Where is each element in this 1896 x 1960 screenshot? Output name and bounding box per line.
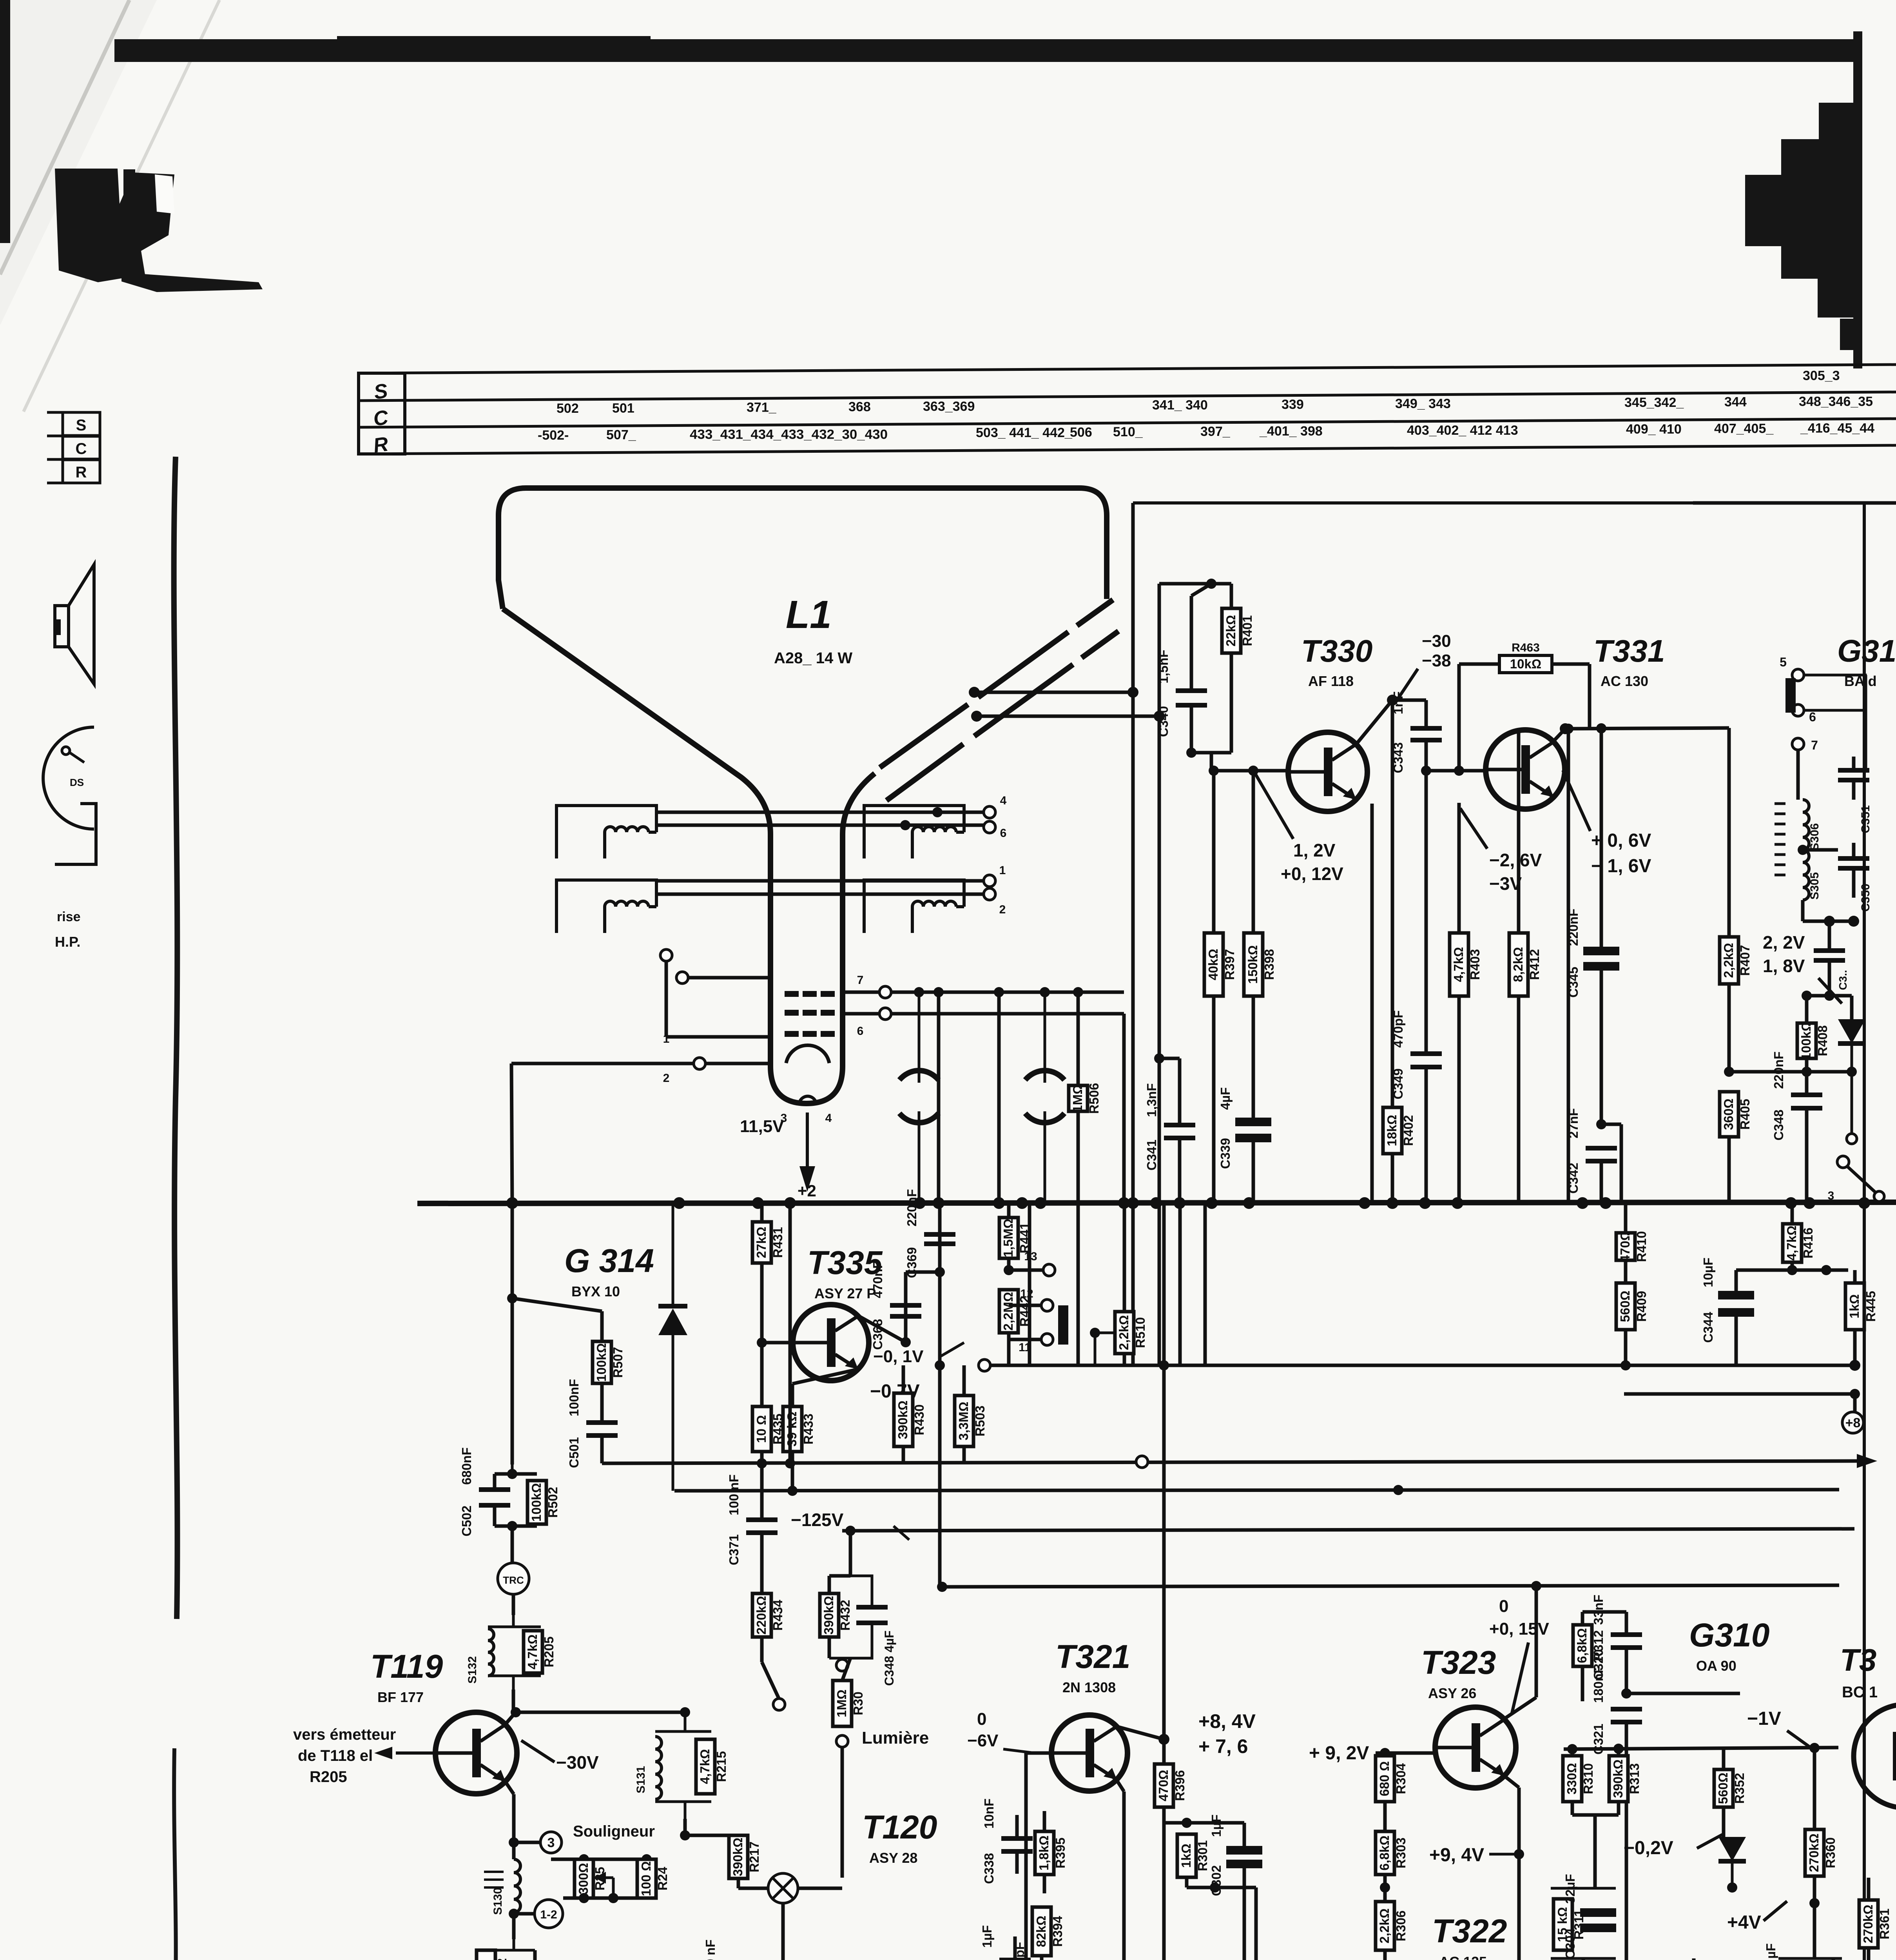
wire TRC to S132 bbox=[512, 1594, 515, 1615]
svg-text:S130: S130 bbox=[491, 1887, 504, 1915]
top component reference table frame bbox=[359, 365, 1896, 457]
node anode tap 2 bbox=[971, 711, 982, 722]
deflection coil upper-left bbox=[556, 806, 656, 858]
label G310 bbox=[1689, 1617, 1770, 1674]
inductor S131 bbox=[634, 1737, 662, 1799]
terminal 6 bbox=[984, 821, 1006, 840]
svg-text:G310: G310 bbox=[1689, 1617, 1770, 1653]
svg-text:+0, 15V: +0, 15V bbox=[1489, 1619, 1550, 1639]
svg-text:−1V: −1V bbox=[1747, 1708, 1781, 1729]
label +8,4V +7,6 bbox=[1198, 1710, 1256, 1757]
svg-text:-502-: -502- bbox=[538, 428, 569, 443]
capacitor C368 bbox=[870, 1261, 921, 1350]
svg-text:7: 7 bbox=[1811, 738, 1818, 752]
label -30 -38 bbox=[1396, 632, 1451, 702]
resistor R398 bbox=[1244, 771, 1276, 1122]
wire diode to R360 bbox=[1732, 1887, 1814, 1888]
svg-text:C339: C339 bbox=[1218, 1138, 1233, 1169]
svg-text:11: 11 bbox=[1019, 1341, 1031, 1354]
node T331 collector bbox=[1560, 723, 1571, 734]
wire R445 top jog bbox=[1848, 1270, 1855, 1283]
label +9,2V bbox=[1309, 1743, 1369, 1764]
node H7 x2398 bbox=[937, 1582, 947, 1592]
wire pin1 line bbox=[666, 1035, 770, 1039]
parallel block S131 R215 outline bbox=[655, 1712, 711, 1819]
svg-text:33nF: 33nF bbox=[1591, 1595, 1606, 1625]
svg-text:6: 6 bbox=[1809, 710, 1816, 724]
node H7 x3920 bbox=[1531, 1581, 1541, 1591]
label L1 bbox=[774, 593, 852, 667]
capacitor C342 bbox=[1566, 1108, 1617, 1203]
svg-text:349_ 343: 349_ 343 bbox=[1395, 396, 1451, 411]
node T335 base bbox=[757, 1338, 767, 1348]
wire box bottom drop bbox=[1582, 1958, 1585, 1960]
resistor R405 bbox=[1720, 1092, 1752, 1203]
parallel block R311 C304 outline bbox=[1551, 1888, 1616, 1958]
svg-text:1MΩ: 1MΩ bbox=[834, 1690, 849, 1717]
svg-text:S132: S132 bbox=[466, 1656, 479, 1684]
node R510 tap bbox=[1090, 1328, 1100, 1338]
svg-text:BYX 10: BYX 10 bbox=[571, 1283, 620, 1299]
wire R463 drop bbox=[1588, 664, 1591, 729]
node diode top bbox=[1824, 991, 1834, 1001]
node -1V a bbox=[1567, 1744, 1577, 1754]
node R360 bot bbox=[1809, 1898, 1820, 1908]
svg-text:22kΩ: 22kΩ bbox=[1224, 615, 1238, 646]
svg-text:R304: R304 bbox=[1394, 1763, 1408, 1794]
capacitor C336 bbox=[1012, 1942, 1063, 1960]
wire R304 chain bbox=[1383, 1802, 1387, 1831]
svg-text:6: 6 bbox=[857, 1025, 864, 1038]
svg-text:TRC: TRC bbox=[503, 1574, 524, 1586]
svg-text:S: S bbox=[76, 417, 87, 434]
label T331 bbox=[1593, 633, 1665, 689]
capacitor C352 bbox=[1814, 951, 1845, 996]
wire collector rail right bbox=[1565, 728, 1729, 729]
wire R432 to R30 bbox=[842, 1658, 850, 1681]
svg-text:vers émetteur: vers émetteur bbox=[293, 1726, 396, 1743]
wire C502 block bottom bbox=[495, 1524, 537, 1528]
node y3240 b bbox=[1821, 1265, 1831, 1275]
svg-text:R432: R432 bbox=[838, 1600, 852, 1631]
terminal 4 bbox=[984, 794, 1007, 818]
svg-text:1µF: 1µF bbox=[1209, 1815, 1224, 1837]
label -0,7V bbox=[831, 1372, 920, 1402]
wire T332 base bbox=[1838, 1748, 1854, 1756]
parallel R432 C348 frame bbox=[829, 1576, 872, 1658]
svg-text:R310: R310 bbox=[1581, 1763, 1595, 1794]
wire T321 emitter drop bbox=[1117, 1780, 1124, 1791]
wire main supply bus bbox=[417, 1202, 1896, 1203]
thermistor TRC bbox=[498, 1563, 529, 1594]
wire T119 emitter col bbox=[512, 1794, 516, 1859]
svg-text:27nF: 27nF bbox=[1566, 1108, 1581, 1138]
svg-text:4,7kΩ: 4,7kΩ bbox=[1451, 947, 1466, 982]
label C351 bbox=[1859, 805, 1872, 833]
node bus junction x2608 bbox=[1016, 1197, 1028, 1209]
svg-text:6,8kΩ: 6,8kΩ bbox=[1377, 1835, 1392, 1871]
capacitor C302 bbox=[1209, 1815, 1262, 1896]
svg-text:403_402_ 412 413: 403_402_ 412 413 bbox=[1407, 423, 1518, 438]
label vers emetteur bbox=[293, 1726, 396, 1786]
svg-text:C343: C343 bbox=[1391, 742, 1405, 773]
svg-text:220nF: 220nF bbox=[1566, 909, 1581, 946]
svg-text:0: 0 bbox=[977, 1710, 986, 1729]
svg-text:T3: T3 bbox=[1840, 1642, 1876, 1677]
parallel block C326 outline bbox=[1778, 1958, 1842, 1960]
node bus junction x4097 bbox=[1600, 1197, 1611, 1209]
node C341 tap on V2 bbox=[1154, 1053, 1164, 1063]
node bus junction x3553 bbox=[1387, 1197, 1398, 1209]
wire collector rail to C343 bbox=[1392, 699, 1426, 702]
svg-text:R394: R394 bbox=[1050, 1916, 1065, 1947]
node S305 mid bbox=[1798, 845, 1808, 855]
resistor R506 bbox=[1069, 992, 1101, 1203]
label T332 bbox=[1840, 1642, 1878, 1701]
terminal pin5 bbox=[1780, 655, 1804, 681]
node y2734 a bbox=[1724, 1067, 1734, 1077]
svg-text:S306: S306 bbox=[1808, 823, 1821, 851]
resistor R441 bbox=[999, 1203, 1032, 1270]
svg-text:1,3nF: 1,3nF bbox=[1144, 1083, 1159, 1117]
svg-text:+8, 4V: +8, 4V bbox=[1198, 1710, 1256, 1732]
wire x2549 vertical bbox=[997, 992, 1001, 1203]
capacitor C343 bbox=[1391, 691, 1442, 773]
wire switch drop bbox=[1878, 1201, 1881, 1203]
resistor R445 bbox=[1845, 1270, 1878, 1365]
wire R463 right lead bbox=[1552, 662, 1590, 666]
svg-text:DS: DS bbox=[70, 777, 84, 788]
svg-text:BF 177: BF 177 bbox=[377, 1689, 424, 1705]
label T335 bbox=[807, 1244, 883, 1301]
svg-text:C345: C345 bbox=[1566, 967, 1581, 998]
svg-text:2,2MΩ: 2,2MΩ bbox=[1001, 1292, 1015, 1331]
wire R507 branch bbox=[512, 1298, 602, 1311]
node bus junction x2868 bbox=[1118, 1197, 1130, 1209]
svg-text:C369: C369 bbox=[904, 1247, 919, 1278]
svg-text:AF 118: AF 118 bbox=[1308, 673, 1354, 689]
label Souligneur bbox=[573, 1823, 655, 1840]
node C349 top tap bbox=[1421, 766, 1431, 776]
resistor R301 bbox=[1177, 1834, 1210, 1887]
wire T335 emitter to R433 bbox=[792, 1370, 854, 1384]
svg-text:R301: R301 bbox=[1195, 1840, 1210, 1871]
wire pin11 bbox=[1009, 1338, 1041, 1341]
wire T330 feed vertical x2958 bbox=[1158, 584, 1161, 716]
svg-text:1nF: 1nF bbox=[1391, 691, 1405, 715]
label -0,2V bbox=[1624, 1835, 1722, 1858]
wire to 3 circle bbox=[514, 1841, 540, 1844]
top table R row numbers bbox=[538, 421, 1874, 443]
wire LUM to R30 column bbox=[798, 1887, 842, 1890]
wire line H5 bbox=[674, 1490, 1839, 1491]
wire x4668 drop bbox=[1828, 921, 1831, 951]
svg-text:C348 4µF: C348 4µF bbox=[882, 1630, 896, 1686]
node C340 join bbox=[1186, 748, 1196, 758]
node y2734 c bbox=[1847, 1067, 1857, 1077]
svg-text:+8: +8 bbox=[1845, 1416, 1861, 1430]
terminal 1 bbox=[984, 864, 1006, 887]
wire T331 emitter drop b bbox=[1457, 996, 1461, 1203]
label T120 bbox=[862, 1809, 937, 1866]
svg-text:C501: C501 bbox=[567, 1437, 581, 1468]
svg-text:2N 1308: 2N 1308 bbox=[1062, 1679, 1116, 1695]
node bus junction x1934 bbox=[752, 1197, 764, 1209]
node T119 coll bbox=[511, 1707, 521, 1717]
node V2 anode tap bbox=[1154, 711, 1165, 722]
capacitor spark gap 1 bbox=[899, 992, 939, 1203]
wire R361 top jog bbox=[1814, 1877, 1869, 1878]
resistor R503 bbox=[955, 1365, 987, 1463]
wire +4V jog bbox=[1732, 1887, 1814, 1903]
wire CRT pin2 line bbox=[511, 1062, 770, 1065]
svg-text:R303: R303 bbox=[1394, 1838, 1408, 1869]
wire T330 collector riser bbox=[1356, 700, 1392, 744]
capacitor C340 bbox=[1156, 596, 1207, 753]
svg-text:100 nF: 100 nF bbox=[703, 1940, 718, 1960]
svg-text:3: 3 bbox=[1828, 1189, 1834, 1202]
label -2,6V -3V bbox=[1460, 808, 1542, 894]
svg-text:371_: 371_ bbox=[747, 400, 777, 415]
wire y4815 rail bbox=[1187, 1886, 1256, 1889]
svg-text:40kΩ: 40kΩ bbox=[1206, 949, 1220, 980]
terminal H2 left open circle bbox=[979, 1359, 990, 1371]
wire S130 bottom bbox=[512, 1913, 516, 1939]
svg-text:R205: R205 bbox=[542, 1637, 556, 1668]
wire x2970 low bbox=[1162, 1823, 1166, 1960]
label T323 bbox=[1421, 1644, 1496, 1701]
wire T321 emitter col bbox=[1122, 1791, 1126, 1960]
label -125V bbox=[791, 1510, 909, 1540]
transistor T331 bbox=[1486, 730, 1565, 809]
speaker symbol bbox=[55, 564, 94, 684]
wire top rail T119 bbox=[516, 1711, 685, 1714]
capacitor C320 bbox=[1591, 1595, 1642, 1693]
resistor R215 bbox=[696, 1739, 729, 1794]
svg-text:T331: T331 bbox=[1593, 633, 1665, 668]
svg-text:A28_ 14 W: A28_ 14 W bbox=[774, 650, 852, 667]
svg-text:1: 1 bbox=[999, 864, 1006, 877]
wire pin12 bbox=[1009, 1304, 1041, 1307]
node C502 top bbox=[507, 1469, 517, 1479]
svg-text:C344: C344 bbox=[1701, 1312, 1715, 1343]
node y4815 bbox=[1210, 1882, 1220, 1893]
resistor R403 bbox=[1450, 933, 1482, 996]
resistor R352a bbox=[1714, 1748, 1747, 1837]
svg-text:368: 368 bbox=[848, 399, 871, 414]
svg-text:0: 0 bbox=[1499, 1597, 1508, 1616]
label 0 -6V bbox=[967, 1710, 1035, 1753]
wire x3876 link bbox=[1517, 1788, 1521, 1960]
wire coil terminal 6 bbox=[656, 824, 984, 827]
svg-text:R416: R416 bbox=[1801, 1228, 1815, 1259]
CRT picture tube L1 envelope bbox=[498, 488, 1107, 1103]
wire C502 column top bbox=[511, 1203, 514, 1465]
capacitor C351 bbox=[1838, 757, 1869, 800]
wire C349 column bbox=[1425, 771, 1428, 1054]
resistor R25 bbox=[575, 1859, 607, 1898]
svg-text:1,8kΩ: 1,8kΩ bbox=[1037, 1835, 1051, 1871]
transistor T323 bbox=[1435, 1707, 1516, 1788]
wire T335 base lead bbox=[762, 1341, 793, 1345]
wire C342 branch bbox=[1601, 1123, 1621, 1126]
svg-text:680nF: 680nF bbox=[459, 1447, 474, 1485]
svg-text:4: 4 bbox=[1000, 794, 1007, 807]
wire T330 emitter drop bbox=[1370, 804, 1374, 1203]
wire T335 collector diag bbox=[858, 1316, 906, 1342]
svg-text:−30V: −30V bbox=[556, 1752, 599, 1773]
node R351 top bbox=[0, 0, 0, 0]
node diode bot bbox=[1727, 1882, 1737, 1893]
label G31 bbox=[1837, 633, 1896, 689]
svg-text:20 µF: 20 µF bbox=[1764, 1943, 1778, 1960]
terminal H4 open circle bbox=[1136, 1456, 1148, 1468]
svg-text:2,2kΩ: 2,2kΩ bbox=[1721, 943, 1736, 978]
svg-text:390kΩ: 390kΩ bbox=[1611, 1759, 1625, 1798]
node pin7 rail x2751 bbox=[1073, 987, 1083, 997]
svg-text:407_405_: 407_405_ bbox=[1714, 421, 1774, 436]
svg-text:470pF: 470pF bbox=[1391, 1010, 1405, 1047]
node bus junction x4038 bbox=[1577, 1197, 1588, 1209]
wire coil block bottom bbox=[1801, 900, 1805, 921]
svg-text:R433: R433 bbox=[801, 1414, 816, 1445]
svg-text:−2, 6V: −2, 6V bbox=[1489, 850, 1542, 870]
svg-text:ASY 28: ASY 28 bbox=[869, 1850, 917, 1866]
svg-text:_401_ 398: _401_ 398 bbox=[1259, 424, 1323, 439]
label T119 bbox=[370, 1648, 443, 1705]
label 0 +0,15V bbox=[1489, 1597, 1550, 1713]
resistor R507 bbox=[593, 1311, 625, 1423]
parallel block S132 R205 outline bbox=[488, 1615, 541, 1690]
svg-text:AC 130: AC 130 bbox=[1601, 673, 1648, 689]
node H2 x2398b bbox=[935, 1360, 945, 1370]
wire line H7 bbox=[942, 1585, 1839, 1587]
resistor R217 bbox=[729, 1835, 761, 1888]
resistor R302 bbox=[1247, 1887, 1279, 1960]
svg-text:T330: T330 bbox=[1301, 633, 1372, 668]
svg-text:R408: R408 bbox=[1815, 1025, 1830, 1056]
resistor R430 bbox=[894, 1365, 926, 1463]
label T321 bbox=[1055, 1638, 1130, 1695]
node R25 top bbox=[579, 1854, 589, 1864]
svg-text:C350: C350 bbox=[1859, 884, 1872, 912]
resistor R407 bbox=[1720, 728, 1752, 1072]
svg-text:G31: G31 bbox=[1837, 633, 1896, 668]
svg-text:R: R bbox=[76, 464, 87, 481]
wire T321 base lead bbox=[1026, 1751, 1051, 1755]
svg-text:R410: R410 bbox=[1634, 1231, 1649, 1262]
svg-text:348_346_35: 348_346_35 bbox=[1799, 394, 1873, 409]
svg-text:339: 339 bbox=[1282, 397, 1304, 412]
terminal 3 bbox=[540, 1832, 562, 1853]
terminal pin11 bbox=[1019, 1334, 1053, 1354]
node bus junction x2655 bbox=[1035, 1197, 1046, 1209]
node pin7 rail x2666 bbox=[1040, 987, 1050, 997]
node R301 top bbox=[1182, 1818, 1192, 1828]
resistor R431 bbox=[752, 1203, 785, 1343]
resistor R205 bbox=[524, 1631, 556, 1673]
arrowhead H4 right bbox=[1857, 1454, 1877, 1468]
wire S131 bottom to R217 bbox=[683, 1819, 687, 1835]
node base T330 b bbox=[1248, 766, 1258, 776]
wire C341 top corner bbox=[1159, 1057, 1180, 1060]
wire R463 left lead bbox=[1459, 662, 1499, 666]
svg-text:560Ω: 560Ω bbox=[1618, 1290, 1632, 1322]
wire diode top feed bbox=[1732, 1807, 1733, 1837]
earpiece jack symbol bbox=[43, 727, 96, 864]
label T330 bbox=[1301, 633, 1372, 689]
label 11,5V and +2 feed bbox=[740, 1112, 816, 1200]
resistor R412 bbox=[1509, 728, 1542, 1203]
svg-text:de T118 el: de T118 el bbox=[298, 1747, 373, 1764]
node bus junction x2950 bbox=[1150, 1197, 1162, 1209]
svg-text:180nF: 180nF bbox=[1591, 1666, 1606, 1703]
svg-text:S131: S131 bbox=[634, 1766, 647, 1793]
svg-text:3: 3 bbox=[547, 1835, 555, 1850]
node bus junction x2016 bbox=[784, 1197, 796, 1209]
svg-text:2,2kΩ: 2,2kΩ bbox=[1377, 1908, 1392, 1944]
svg-text:−6V: −6V bbox=[967, 1731, 999, 1750]
wire T323 collector bbox=[1504, 1697, 1536, 1719]
node base T323 bbox=[1380, 1748, 1390, 1758]
svg-text:4,7kΩ: 4,7kΩ bbox=[525, 1634, 540, 1670]
resistor R434 bbox=[752, 1593, 785, 1662]
node base T330 a bbox=[1209, 766, 1219, 776]
wire y4320 rail bbox=[1626, 1692, 1740, 1695]
wire T321 base drop bbox=[1024, 1753, 1028, 1960]
wire T323 emitter bbox=[1504, 1776, 1519, 1788]
wire G310 to C321 rail bbox=[1626, 1709, 1627, 1722]
svg-text:27kΩ: 27kΩ bbox=[754, 1227, 769, 1258]
svg-text:H.P.: H.P. bbox=[55, 934, 80, 950]
resistor R312 bbox=[1573, 1612, 1606, 1701]
terminal pin6 bbox=[857, 1008, 891, 1038]
resistor R310 bbox=[1563, 1749, 1595, 1815]
resistor R401 bbox=[1222, 584, 1254, 753]
svg-text:R503: R503 bbox=[973, 1406, 987, 1437]
wire diode stub bbox=[1850, 996, 1854, 1019]
arrow vers emetteur bbox=[374, 1747, 435, 1759]
top table S row numbers bbox=[1803, 368, 1840, 383]
svg-text:Souligneur: Souligneur bbox=[573, 1823, 655, 1840]
wire T120 base col bbox=[781, 1903, 785, 1960]
label +9,4V bbox=[1429, 1845, 1519, 1866]
deflection coil upper-right bbox=[864, 806, 964, 858]
node bus junction x2891 bbox=[1127, 1197, 1139, 1209]
node 12circle tap bbox=[509, 1909, 519, 1919]
wire T119 emitter drop bbox=[506, 1782, 514, 1794]
deflection coil lower-left bbox=[556, 880, 656, 933]
svg-text:C304: C304 bbox=[1563, 1928, 1577, 1959]
svg-text:−0,2V: −0,2V bbox=[1624, 1838, 1673, 1858]
svg-text:5: 5 bbox=[1780, 655, 1787, 669]
wire R312 top rail bbox=[1582, 1610, 1626, 1614]
svg-text:506: 506 bbox=[1070, 425, 1092, 440]
svg-text:R502: R502 bbox=[546, 1487, 560, 1518]
terminal +8 right bbox=[1842, 1412, 1863, 1433]
node pot wiper join bbox=[608, 1893, 618, 1903]
wire EHT vertical V2 bbox=[1158, 716, 1161, 1343]
svg-text:C340: C340 bbox=[1156, 706, 1171, 737]
lamp LUM bbox=[768, 1873, 798, 1903]
resistor R351 bbox=[1684, 1958, 1717, 1960]
node H2 x4733 bbox=[1849, 1360, 1860, 1371]
wire x4137 drop bbox=[1620, 1124, 1623, 1203]
wire y2734 bar bbox=[1729, 1070, 1852, 1074]
svg-text:32µF: 32µF bbox=[1563, 1874, 1577, 1904]
node C502 bottom bbox=[507, 1521, 517, 1531]
wire x2016 drop bbox=[788, 1203, 792, 1463]
